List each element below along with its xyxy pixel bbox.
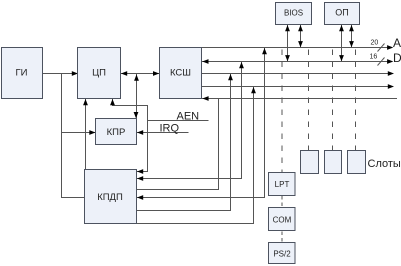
svg-text:ОП: ОП: [335, 8, 348, 18]
svg-text:Слоты: Слоты: [368, 158, 401, 170]
svg-text:PS/2: PS/2: [273, 250, 291, 259]
svg-text:IRQ: IRQ: [160, 123, 180, 135]
svg-text:LPT: LPT: [275, 180, 290, 189]
svg-text:КПР: КПР: [107, 127, 126, 138]
svg-text:20: 20: [371, 40, 379, 47]
svg-text:ЦП: ЦП: [92, 67, 106, 78]
svg-text:AEN: AEN: [177, 111, 200, 123]
svg-text:ГИ: ГИ: [16, 67, 28, 78]
svg-text:A: A: [393, 36, 401, 50]
svg-text:D: D: [393, 51, 401, 65]
svg-text:16: 16: [370, 54, 378, 61]
svg-text:КПДП: КПДП: [97, 192, 123, 203]
svg-text:BIOS: BIOS: [284, 9, 303, 18]
svg-text:КСШ: КСШ: [170, 67, 191, 78]
svg-text:COM: COM: [273, 216, 292, 225]
